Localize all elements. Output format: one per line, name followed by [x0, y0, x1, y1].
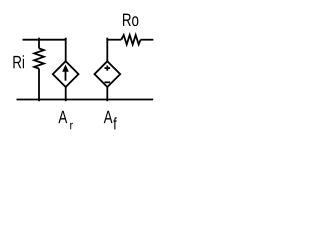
- plus sign inside A_f (vertical bar): [106, 66, 108, 71]
- label A_r main letter A: [58, 111, 67, 123]
- wire Af source bottom stub to bottom rail: [106, 87, 108, 101]
- wire from Ro to right output terminal: [141, 39, 154, 41]
- wire vertical stub from A_f source top up to corner node: [106, 38, 108, 62]
- wire top-left horizontal from input terminal to corner node: [23, 39, 67, 41]
- controlled source A_f diamond body: [95, 61, 121, 87]
- resistor Ri zigzag body: [34, 48, 44, 68]
- label A_f subscript f: [113, 117, 116, 129]
- label A_r subscript r: [70, 123, 73, 129]
- label A_f main letter A: [104, 111, 113, 123]
- label Ro: [123, 14, 138, 27]
- wire Ri bottom stub from resistor body down to bottom rail: [38, 69, 40, 102]
- resistor Ro zigzag body: [121, 35, 140, 45]
- wire Ar source bottom stub to bottom rail: [65, 87, 67, 101]
- wire horizontal from corner node to resistor Ro left lead: [106, 39, 121, 41]
- plus sign inside A_f (horizontal bar): [105, 67, 111, 69]
- wire vertical drop from corner node to A_r source top: [65, 38, 67, 62]
- minus sign inside A_f: [105, 81, 111, 83]
- wire bottom rail (common node): [17, 99, 154, 101]
- wire Ri top stub from top wire down to resistor body: [38, 38, 40, 49]
- controlled source A_r diamond body: [53, 61, 79, 87]
- label Ri: [13, 55, 24, 68]
- arrow inside A_r (up arrow: shaft + filled head): [62, 64, 69, 80]
